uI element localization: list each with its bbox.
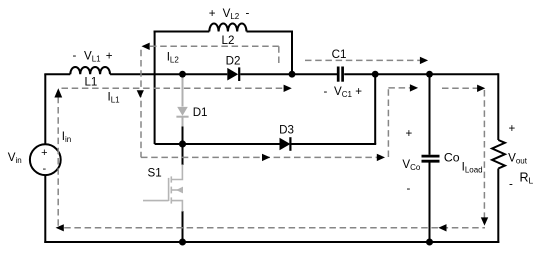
source polarity signs [41, 147, 47, 175]
wire main horizontal C1 to right edge [344, 73, 498, 75]
svg-text:D1: D1 [193, 106, 208, 119]
wire left vertical bottom (Vin to bottom wire) [44, 175, 46, 243]
svg-text:+: + [509, 122, 516, 135]
arrow D3 loop mid right [262, 154, 270, 161]
diode D2 [227, 67, 239, 81]
wire dashed VCo loop horizontal [388, 87, 410, 89]
arrow C1 loop right [420, 57, 428, 64]
node main-L2 junction [289, 71, 296, 78]
svg-text:+: + [355, 85, 362, 98]
arrow ILoad top right [477, 85, 485, 92]
arrow Iin up [54, 88, 62, 97]
wire dashed VCo loop vertical [387, 88, 389, 157]
inductor L1 [70, 67, 110, 74]
inductor L2 [209, 23, 246, 31]
dashed current loop lines [58, 46, 485, 228]
svg-text:+: + [41, 147, 47, 159]
svg-text:VCo: VCo [402, 158, 421, 172]
svg-text:-: - [407, 182, 411, 195]
wire dashed IL1 horizontal [62, 87, 285, 89]
svg-text:IL1: IL1 [108, 91, 121, 105]
wire dashed ILoad top horizontal [442, 87, 481, 89]
node S1-bottom junction [179, 239, 186, 246]
L2 loop left vertical wire [154, 31, 156, 145]
arrow bottom end left [56, 224, 64, 231]
svg-text:S1: S1 [148, 167, 162, 180]
transistor S1 MOSFET (gray, off) [143, 165, 183, 212]
svg-text:+: + [106, 49, 113, 62]
diode D3 [280, 137, 291, 151]
arrow ILoad down [481, 217, 488, 225]
svg-text:VL1: VL1 [84, 49, 101, 63]
arrow D3 loop end right [377, 154, 385, 161]
arrow IL2 left [142, 43, 150, 50]
svg-text:VC1: VC1 [334, 85, 353, 99]
node D1-D3-S1 junction [179, 140, 186, 147]
svg-text:VL2: VL2 [223, 7, 240, 21]
svg-text:-: - [246, 7, 250, 20]
wire dashed ILoad right vertical [483, 90, 485, 218]
D3 branch horizontal wire right of D3 [291, 143, 376, 145]
capacitor Co branch upper wire [429, 74, 431, 155]
node Co-bottom junction [426, 239, 433, 246]
svg-text:+: + [209, 7, 216, 20]
svg-text:Iin: Iin [62, 130, 71, 144]
capacitor Co plates [422, 156, 440, 161]
capacitor Co branch lower wire [429, 162, 431, 242]
svg-text:L2: L2 [222, 34, 235, 47]
wire dashed Iin left vertical [57, 97, 59, 228]
arrow IL2 down [137, 90, 144, 98]
svg-text:ILoad: ILoad [462, 160, 483, 174]
svg-text:IL2: IL2 [167, 51, 180, 65]
wire dashed C1 loop horizontal [305, 59, 420, 61]
L2 loop right vertical wire down to main node [291, 31, 293, 75]
svg-text:RL: RL [520, 171, 534, 186]
wire S1 source black segment to bottom [182, 211, 184, 242]
svg-text:C1: C1 [332, 48, 347, 61]
svg-text:-: - [324, 85, 328, 98]
wire main horizontal L1 to D2 [110, 73, 227, 75]
svg-text:-: - [73, 49, 77, 62]
arrow IL1 right [284, 85, 292, 92]
wire dashed IL2 left vertical [140, 50, 142, 158]
svg-text:D3: D3 [279, 123, 294, 136]
svg-text:Co: Co [444, 151, 460, 165]
wire dashed IL2 top horizontal [150, 45, 279, 47]
wire dashed D3 loop horizontal [141, 156, 377, 158]
svg-text:-: - [42, 163, 46, 175]
wire right vertical lower (RL to bottom) [497, 169, 499, 244]
wire main horizontal D2 to C1 [240, 73, 337, 75]
resistor RL zigzag [492, 140, 505, 169]
svg-text:-: - [509, 178, 513, 191]
L2 loop top wire right segment [247, 31, 294, 33]
node main-Co junction [426, 71, 433, 78]
arrow bottom mid left [438, 224, 446, 231]
wire left vertical top (Vin to main wire) [44, 74, 46, 144]
wire dashed IL2 right vertical [278, 46, 280, 66]
arrow VCo loop right [410, 84, 418, 91]
capacitor C1 plates [338, 67, 342, 82]
wire dashed bottom horizontal [64, 227, 485, 229]
L2 loop top wire left segment [154, 31, 210, 33]
node main-D1 junction [179, 71, 186, 78]
wire main horizontal left segment to L1 [44, 73, 70, 75]
D3 branch horizontal wire left of D3 [155, 143, 280, 145]
voltage source Vin circle [30, 144, 61, 175]
node main-D3 junction [372, 71, 379, 78]
svg-text:Vin: Vin [8, 151, 22, 165]
svg-text:L1: L1 [84, 76, 97, 89]
wire bottom horizontal [44, 241, 499, 243]
svg-text:+: + [406, 127, 413, 140]
wire right vertical upper (to RL) [497, 73, 499, 140]
svg-text:Vout: Vout [508, 152, 528, 166]
diode D1 (gray, inactive) [176, 78, 188, 127]
wire D1 branch black segment below D1 [182, 126, 184, 144]
wire S1 drain black segment [182, 144, 184, 165]
svg-text:D2: D2 [226, 55, 241, 68]
D3 branch vertical wire up to main node [374, 74, 376, 144]
